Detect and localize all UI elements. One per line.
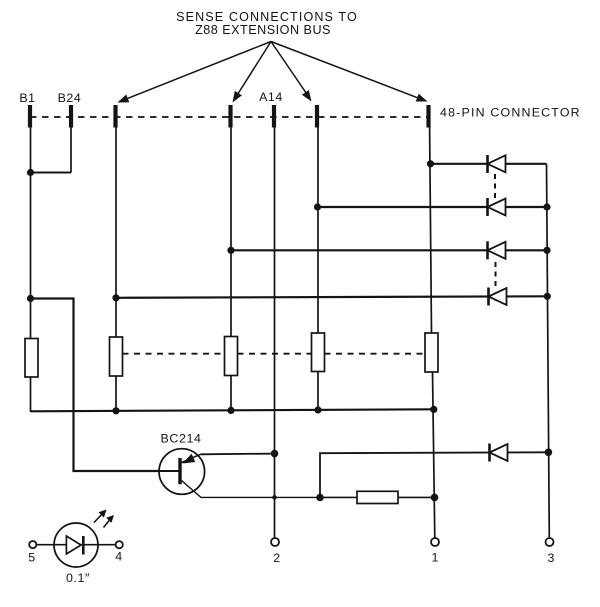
svg-text:B1: B1 [19,91,35,105]
svg-text:1: 1 [432,551,440,565]
svg-text:B24: B24 [58,91,82,105]
svg-text:3: 3 [548,551,556,565]
svg-text:SENSE CONNECTIONS TO: SENSE CONNECTIONS TO [176,10,358,24]
svg-text:A14: A14 [259,90,283,104]
svg-text:4: 4 [115,550,123,564]
svg-text:5: 5 [28,551,36,565]
svg-text:Z88 EXTENSION BUS: Z88 EXTENSION BUS [195,23,331,37]
svg-text:BC214: BC214 [161,432,202,446]
svg-text:48-PIN CONNECTOR: 48-PIN CONNECTOR [440,106,581,120]
svg-text:2: 2 [273,551,281,565]
svg-text:0.1″: 0.1″ [66,571,90,585]
